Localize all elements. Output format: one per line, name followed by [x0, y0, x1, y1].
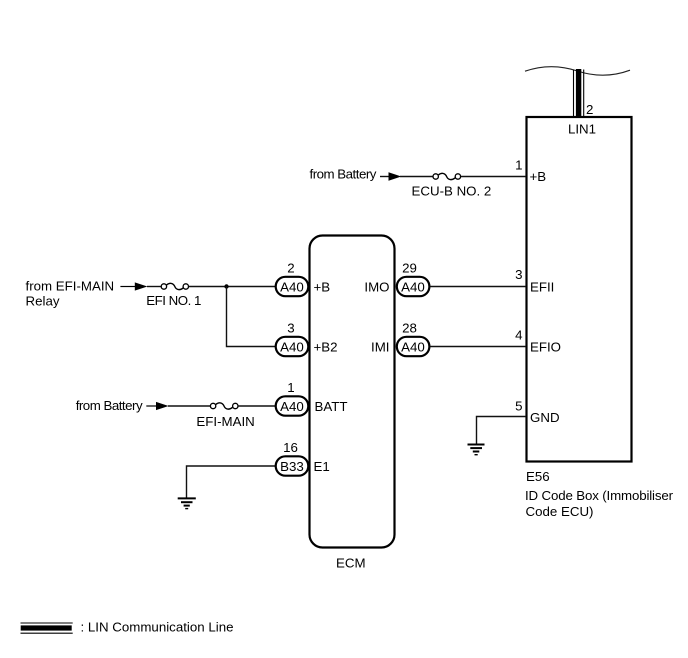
- ground (ID code box): [468, 445, 485, 455]
- wire arrow to fuse ECU-B: [400, 176, 433, 178]
- svg-text:EFIO: EFIO: [530, 340, 561, 355]
- connector A40 pin 1 (BATT): [276, 396, 309, 415]
- wire GND to ground: [477, 417, 527, 444]
- svg-text:GND: GND: [530, 410, 560, 425]
- svg-text:Relay: Relay: [26, 294, 60, 309]
- svg-text:E1: E1: [314, 459, 330, 474]
- svg-text:A40: A40: [280, 399, 304, 414]
- fuse EFI NO. 1: [161, 283, 188, 289]
- connector A40 pin 2 (+B): [276, 277, 309, 296]
- fuse EFI-MAIN: [210, 403, 238, 409]
- svg-text:3: 3: [515, 267, 522, 282]
- svg-text:+B: +B: [314, 279, 331, 294]
- svg-text:B33: B33: [280, 459, 304, 474]
- svg-text:Code ECU): Code ECU): [526, 504, 594, 519]
- wire fuse to ECM +B pin: [189, 286, 276, 288]
- svg-text:+B: +B: [530, 169, 547, 184]
- wire arrow to fuse EFI NO.1: [147, 286, 161, 288]
- connector A40 pin 29 (IMO): [397, 277, 430, 296]
- ground (E1): [178, 498, 196, 508]
- svg-text:LIN1: LIN1: [568, 122, 596, 137]
- svg-text:E56: E56: [526, 469, 550, 484]
- svg-text:A40: A40: [401, 279, 425, 294]
- wire IMO to EFII: [430, 286, 526, 288]
- svg-text:EFI-MAIN: EFI-MAIN: [196, 414, 254, 429]
- junction node: [224, 284, 228, 288]
- svg-text:5: 5: [515, 399, 522, 414]
- wire harness wavy line (top of LIN wire): [525, 67, 630, 76]
- connector A40 pin 3 (+B2): [276, 337, 309, 356]
- svg-text:from Battery: from Battery: [76, 398, 143, 413]
- svg-text:4: 4: [515, 327, 522, 342]
- svg-text:16: 16: [283, 440, 298, 455]
- svg-text:ID Code Box (Immobiliser: ID Code Box (Immobiliser: [525, 488, 674, 503]
- arrow from Battery (EFI-MAIN row): [146, 402, 168, 410]
- svg-text:2: 2: [287, 261, 294, 276]
- svg-text:IMI: IMI: [371, 339, 389, 354]
- wire IMI to EFIO: [430, 346, 526, 348]
- svg-text:: LIN Communication Line: : LIN Communication Line: [81, 620, 234, 635]
- svg-text:from EFI-MAIN: from EFI-MAIN: [26, 278, 115, 293]
- wire fuse to ECM BATT pin: [238, 405, 276, 407]
- svg-text:A40: A40: [280, 279, 304, 294]
- svg-text:from Battery: from Battery: [310, 166, 377, 181]
- svg-text:ECM: ECM: [336, 556, 366, 571]
- legend LIN communication line symbol: [21, 623, 73, 633]
- svg-text:28: 28: [402, 321, 417, 336]
- LIN communication line (shielded wire to pin 2): [574, 69, 584, 116]
- svg-text:EFII: EFII: [530, 280, 554, 295]
- svg-text:A40: A40: [401, 339, 425, 354]
- svg-text:BATT: BATT: [315, 399, 348, 414]
- arrow from Battery (ECU-B row): [380, 172, 401, 180]
- arrow from EFI-MAIN relay: [120, 282, 147, 290]
- wire branch down from junction: [227, 287, 277, 347]
- wire fuse to ID box pin 1: [461, 176, 526, 178]
- ID code box E56: [527, 117, 632, 462]
- svg-text:ECU-B NO. 2: ECU-B NO. 2: [412, 183, 492, 198]
- label ID Code Box (Immobiliser Code ECU): [525, 488, 674, 519]
- connector A40 pin 28 (IMI): [397, 337, 430, 356]
- label from EFI-MAIN Relay: [26, 278, 115, 308]
- fuse ECU-B NO. 2: [433, 173, 461, 179]
- wire E1 to ground: [187, 466, 277, 498]
- svg-text:29: 29: [402, 261, 417, 276]
- connector B33 pin 16 (E1): [276, 456, 309, 475]
- svg-text:IMO: IMO: [364, 279, 389, 294]
- svg-text:2: 2: [586, 102, 593, 117]
- svg-text:1: 1: [287, 380, 294, 395]
- svg-text:EFI NO. 1: EFI NO. 1: [146, 293, 201, 308]
- wire arrow to fuse EFI-MAIN: [168, 405, 210, 407]
- ECM box: [310, 236, 395, 548]
- svg-text:3: 3: [287, 321, 294, 336]
- svg-text:+B2: +B2: [314, 339, 338, 354]
- svg-text:A40: A40: [280, 339, 304, 354]
- svg-text:1: 1: [515, 157, 522, 172]
